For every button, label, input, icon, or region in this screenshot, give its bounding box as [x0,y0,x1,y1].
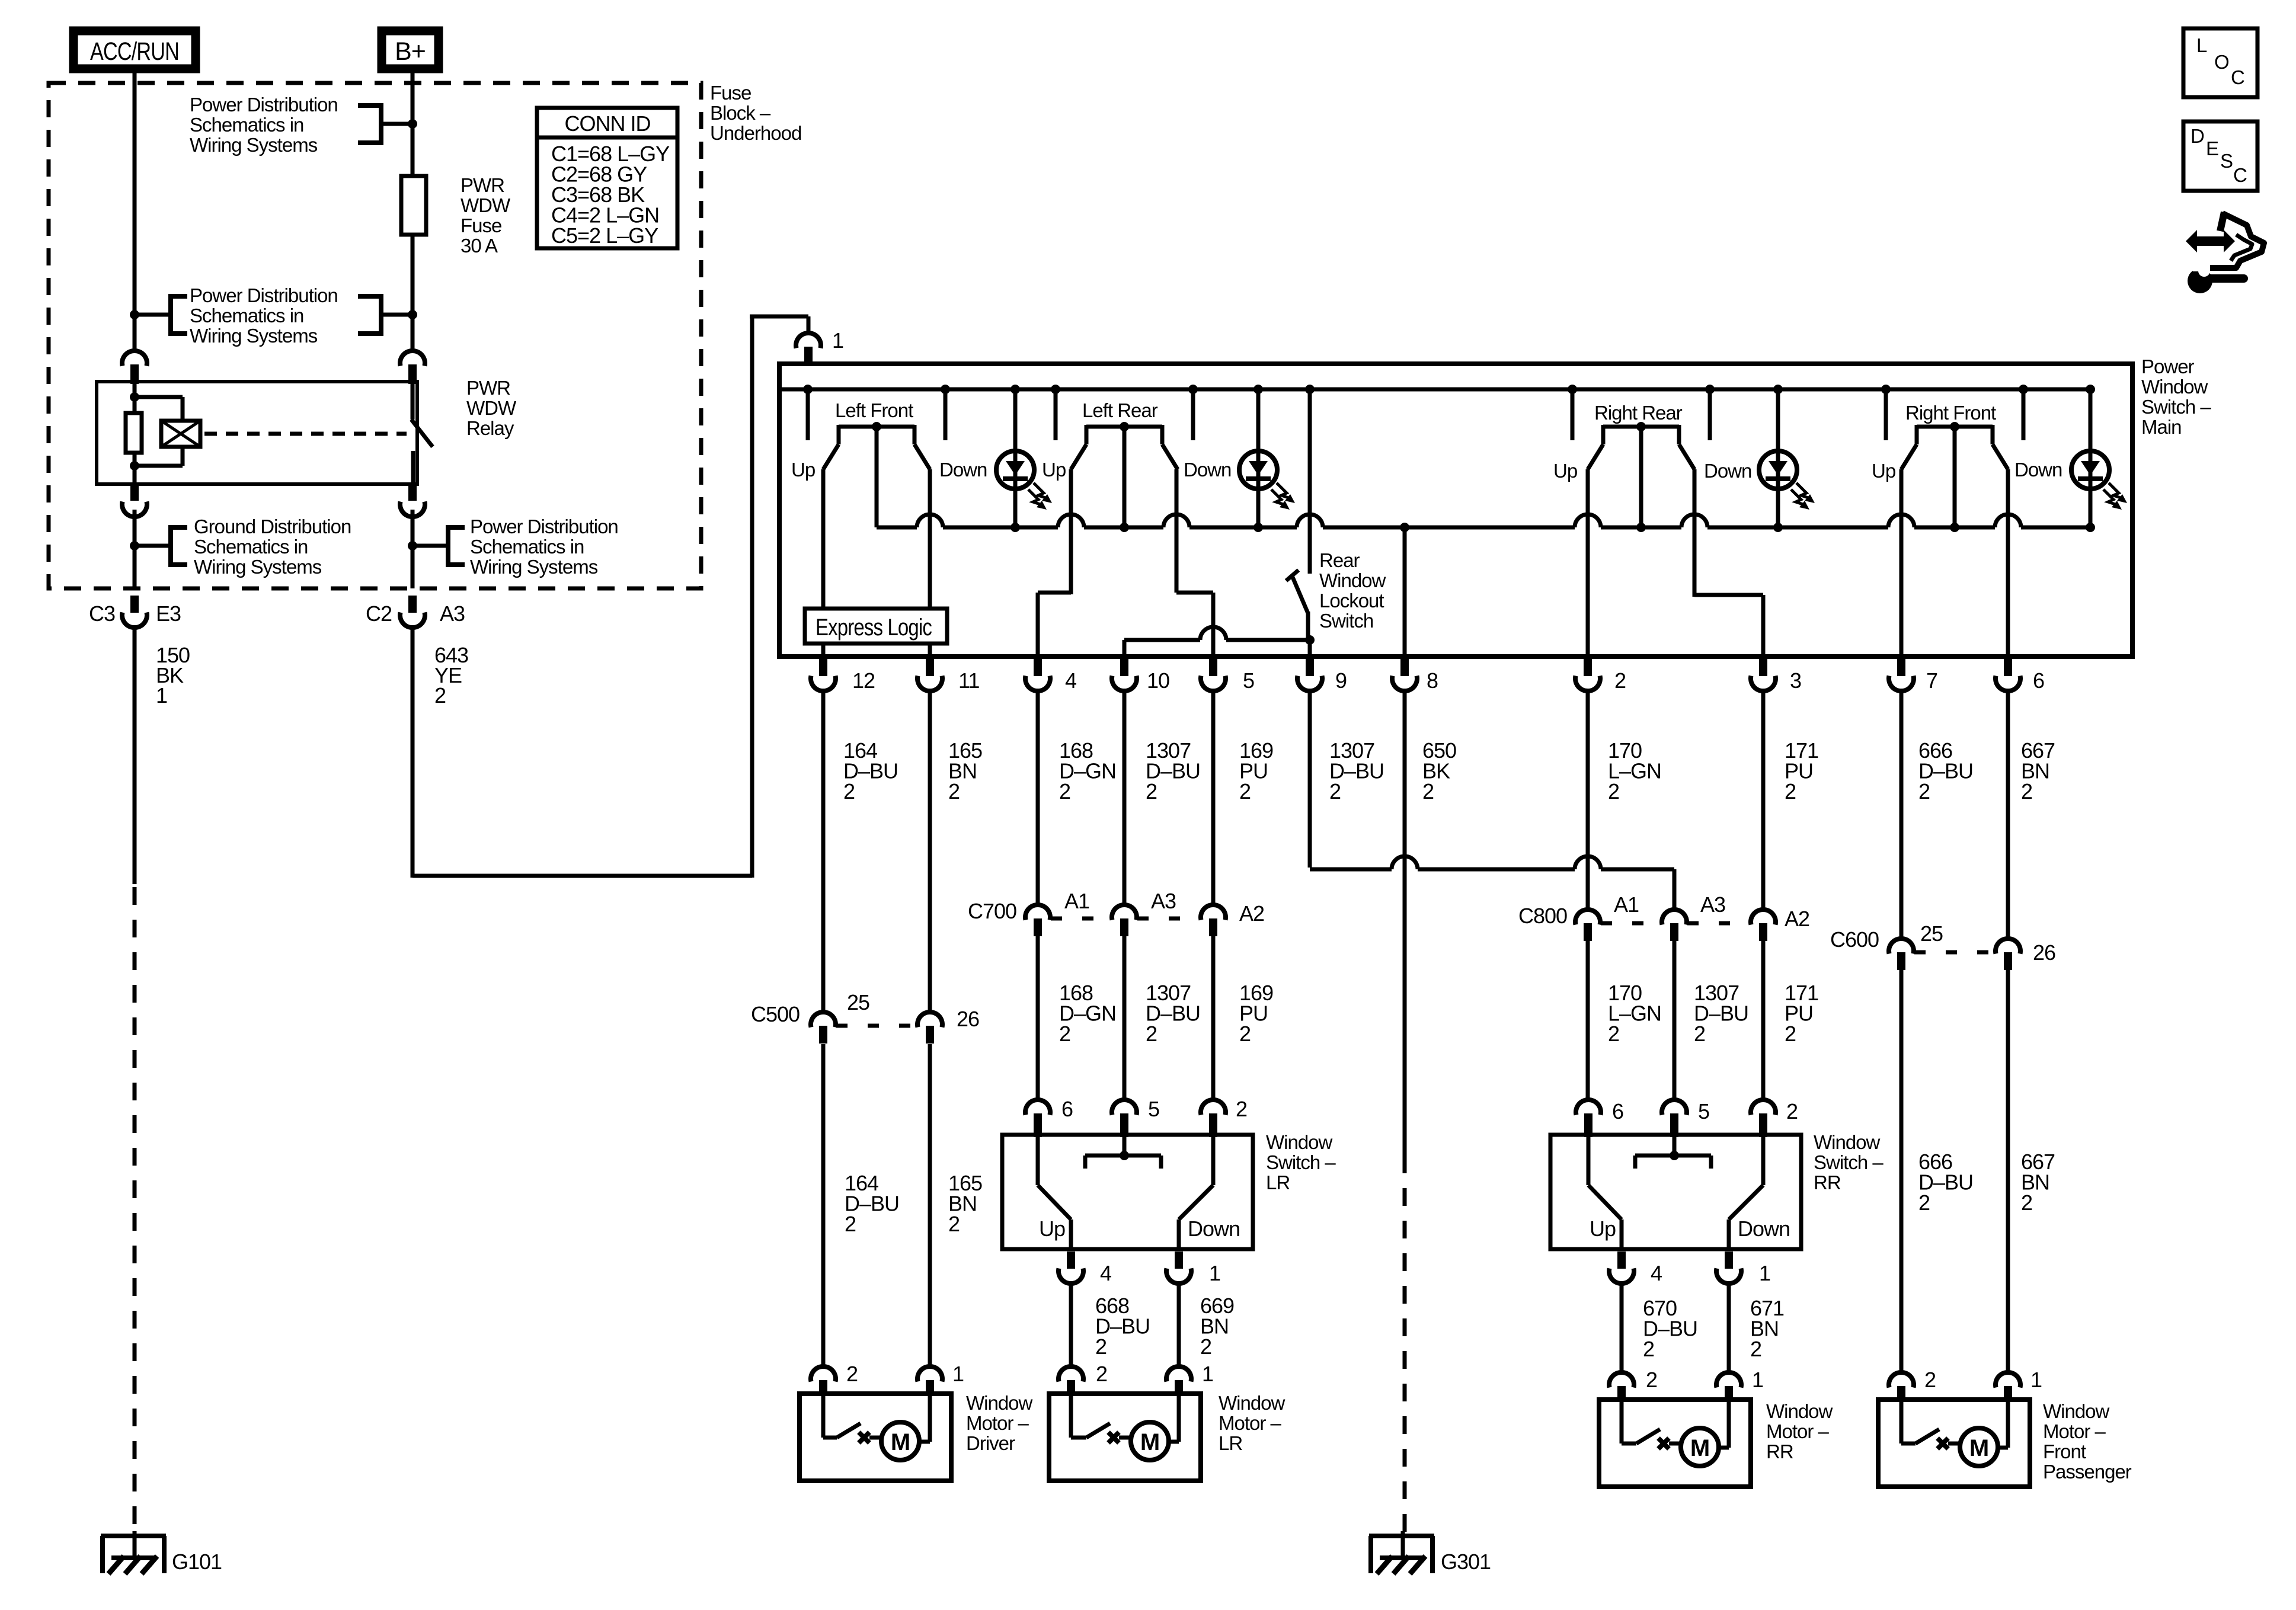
svg-text:C: C [2231,66,2244,88]
svg-text:M: M [1969,1435,1988,1461]
svg-text:LR: LR [1266,1172,1290,1193]
svg-text:1: 1 [2030,1368,2042,1392]
svg-text:O: O [2214,51,2229,73]
svg-text:Down: Down [939,459,987,481]
svg-text:Window: Window [1219,1392,1285,1414]
svg-text:2: 2 [1785,1022,1796,1046]
svg-text:Rear: Rear [1319,549,1360,571]
svg-text:Right Front: Right Front [1905,402,1996,424]
svg-text:Left Rear: Left Rear [1082,399,1158,421]
svg-text:2: 2 [1146,1022,1157,1046]
svg-text:LR: LR [1219,1432,1242,1454]
svg-text:2: 2 [1422,779,1434,804]
svg-text:A3: A3 [1151,889,1176,913]
svg-text:Express Logic: Express Logic [816,614,932,641]
svg-text:Window: Window [2043,1400,2110,1422]
svg-text:1: 1 [156,683,167,708]
svg-text:2: 2 [843,779,855,804]
svg-text:Motor –: Motor – [1219,1412,1282,1434]
svg-text:25: 25 [847,990,869,1014]
svg-text:4: 4 [1651,1261,1662,1285]
svg-text:C: C [2233,164,2247,186]
svg-text:2: 2 [1608,1022,1619,1046]
svg-text:Switch –: Switch – [1266,1151,1336,1173]
svg-text:Window: Window [966,1392,1033,1414]
svg-text:2: 2 [1146,779,1157,804]
svg-text:2: 2 [1924,1368,1936,1392]
svg-text:10: 10 [1147,668,1169,693]
svg-text:PWR: PWR [466,377,510,399]
svg-text:A1: A1 [1614,892,1639,917]
svg-text:2: 2 [1643,1337,1654,1361]
svg-text:4: 4 [1065,668,1076,693]
svg-text:Window: Window [1766,1400,1833,1422]
svg-text:26: 26 [957,1007,979,1031]
svg-text:1: 1 [1202,1362,1213,1386]
svg-text:Down: Down [2014,459,2062,481]
svg-text:2: 2 [1236,1097,1247,1121]
svg-text:6: 6 [1612,1099,1623,1124]
svg-text:Wiring Systems: Wiring Systems [190,134,318,156]
svg-text:11: 11 [958,668,979,693]
svg-text:Fuse: Fuse [710,82,751,104]
svg-text:6: 6 [1061,1097,1073,1121]
svg-text:C700: C700 [968,899,1016,923]
svg-text:2: 2 [1059,1022,1070,1046]
svg-text:Front: Front [2043,1441,2086,1462]
svg-text:Passenger: Passenger [2043,1461,2132,1483]
svg-text:C5=2 L–GY: C5=2 L–GY [551,223,658,248]
svg-text:Power Distribution: Power Distribution [470,516,618,537]
svg-text:A3: A3 [440,601,465,626]
svg-text:B+: B+ [395,37,426,66]
svg-text:Wiring Systems: Wiring Systems [190,325,318,347]
svg-text:2: 2 [2021,779,2032,804]
svg-text:2: 2 [1694,1022,1705,1046]
svg-text:L: L [2196,34,2207,56]
svg-text:Wiring Systems: Wiring Systems [470,556,598,578]
svg-text:Left Front: Left Front [835,399,913,421]
svg-text:5: 5 [1698,1099,1709,1124]
svg-text:M: M [1690,1435,1709,1461]
svg-text:Switch –: Switch – [2141,396,2211,418]
svg-text:C800: C800 [1518,904,1567,928]
svg-text:Window: Window [2141,376,2208,398]
svg-text:Up: Up [791,459,815,481]
svg-text:Underhood: Underhood [710,122,801,144]
svg-text:2: 2 [434,683,446,708]
svg-text:Window: Window [1319,569,1386,591]
svg-text:2: 2 [1918,1190,1930,1215]
svg-text:2: 2 [1095,1334,1107,1359]
svg-text:9: 9 [1335,668,1347,693]
svg-text:6: 6 [2033,668,2044,693]
svg-text:Driver: Driver [966,1432,1015,1454]
svg-text:A2: A2 [1785,907,1809,931]
svg-text:Up: Up [1872,460,1895,482]
svg-text:2: 2 [1614,668,1626,693]
svg-text:E: E [2206,137,2218,159]
svg-text:C3: C3 [89,601,115,626]
svg-text:WDW: WDW [461,194,511,216]
svg-text:7: 7 [1926,668,1937,693]
svg-text:Up: Up [1590,1217,1616,1241]
svg-text:1: 1 [832,328,843,353]
svg-text:A2: A2 [1239,901,1264,926]
svg-text:1: 1 [1752,1368,1763,1392]
svg-text:2: 2 [2021,1190,2032,1215]
svg-text:5: 5 [1243,668,1254,693]
svg-text:G101: G101 [172,1550,222,1574]
svg-text:Window: Window [1814,1131,1881,1153]
svg-text:A1: A1 [1064,889,1089,913]
svg-text:S: S [2220,150,2233,172]
svg-text:2: 2 [1239,1022,1251,1046]
svg-text:Motor –: Motor – [966,1412,1029,1434]
svg-text:Schematics in: Schematics in [190,114,303,136]
svg-text:12: 12 [852,668,875,693]
svg-text:2: 2 [1239,779,1251,804]
svg-text:Motor –: Motor – [2043,1420,2106,1442]
svg-text:2: 2 [1059,779,1070,804]
svg-text:30 A: 30 A [461,235,498,257]
svg-text:G301: G301 [1441,1550,1491,1574]
svg-text:8: 8 [1427,668,1438,693]
svg-text:Window: Window [1266,1131,1333,1153]
svg-text:PWR: PWR [461,174,504,196]
svg-text:2: 2 [1918,779,1930,804]
svg-text:WDW: WDW [466,397,517,419]
svg-text:1: 1 [1209,1261,1220,1285]
svg-text:1: 1 [1759,1261,1770,1285]
svg-text:4: 4 [1100,1261,1111,1285]
svg-text:Switch –: Switch – [1814,1151,1884,1173]
svg-text:M: M [891,1429,910,1455]
svg-text:Power Distribution: Power Distribution [190,284,338,306]
svg-text:2: 2 [1646,1368,1657,1392]
svg-text:E3: E3 [156,601,181,626]
svg-text:3: 3 [1790,668,1801,693]
svg-text:2: 2 [845,1212,856,1236]
svg-text:2: 2 [1785,779,1796,804]
svg-text:Down: Down [1738,1217,1790,1241]
svg-text:Schematics in: Schematics in [470,536,584,558]
svg-text:C600: C600 [1830,927,1879,952]
svg-text:2: 2 [1786,1099,1798,1124]
svg-text:Motor –: Motor – [1766,1420,1830,1442]
svg-text:M: M [1140,1429,1159,1455]
svg-text:CONN ID: CONN ID [565,111,651,136]
svg-text:RR: RR [1814,1172,1841,1193]
svg-text:2: 2 [948,779,960,804]
svg-text:Right Rear: Right Rear [1594,402,1683,424]
svg-text:2: 2 [1608,779,1619,804]
svg-text:D: D [2191,125,2204,147]
svg-text:5: 5 [1148,1097,1159,1121]
svg-text:2: 2 [948,1212,960,1236]
svg-text:ACC/RUN: ACC/RUN [90,37,179,66]
svg-text:Switch: Switch [1319,610,1373,632]
svg-text:Power Distribution: Power Distribution [190,94,338,116]
svg-text:Lockout: Lockout [1319,590,1384,612]
svg-text:RR: RR [1766,1441,1793,1462]
svg-text:Relay: Relay [466,417,514,439]
svg-text:Up: Up [1553,460,1577,482]
svg-text:2: 2 [1750,1337,1761,1361]
svg-text:Wiring Systems: Wiring Systems [194,556,322,578]
svg-text:Down: Down [1704,460,1751,482]
svg-text:2: 2 [1200,1334,1211,1359]
svg-text:Down: Down [1184,459,1231,481]
svg-text:Schematics in: Schematics in [190,305,303,327]
svg-text:C500: C500 [751,1002,800,1026]
svg-text:Fuse: Fuse [461,215,501,236]
svg-text:25: 25 [1920,921,1943,946]
svg-text:Down: Down [1188,1217,1240,1241]
svg-text:26: 26 [2033,940,2055,965]
svg-text:Up: Up [1039,1217,1065,1241]
svg-text:1: 1 [952,1362,964,1386]
svg-text:2: 2 [846,1362,858,1386]
svg-text:Ground Distribution: Ground Distribution [194,516,351,537]
svg-text:Main: Main [2141,416,2182,438]
svg-text:Up: Up [1042,459,1066,481]
svg-text:Block –: Block – [710,102,771,124]
svg-text:C2: C2 [366,601,392,626]
svg-text:Power: Power [2141,356,2195,377]
svg-text:Schematics in: Schematics in [194,536,308,558]
svg-text:A3: A3 [1700,892,1725,917]
svg-text:2: 2 [1329,779,1341,804]
svg-text:2: 2 [1096,1362,1107,1386]
